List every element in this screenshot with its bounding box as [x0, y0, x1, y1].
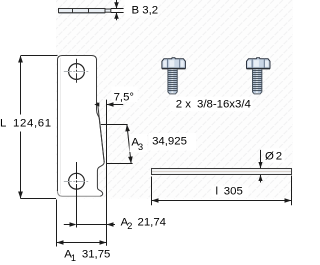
dimension 7,5 degrees (bend angle)	[94, 86, 137, 107]
dimension l 305 (wire length)	[152, 176, 292, 206]
label diameter 2	[264, 148, 285, 162]
dimension A1 (overall width)	[57, 200, 107, 247]
bolt 2 (hex head 3/8-16x3/4)	[247, 58, 271, 94]
svg-text:21,74: 21,74	[138, 217, 167, 229]
svg-text:B 3,2: B 3,2	[132, 5, 159, 17]
label 2 x 3/8-16x3/4	[170, 97, 253, 112]
dimension diameter 2 (wire)	[258, 150, 262, 183]
hole 1 centerlines	[64, 59, 89, 84]
label A2 21,74	[121, 217, 166, 232]
svg-text:1: 1	[71, 253, 76, 263]
dimension A2 (hole to edge)	[64, 222, 115, 227]
dimension B (thickness)	[111, 0, 124, 20]
locking plate side view (thickness B)	[59, 9, 111, 14]
svg-text:7,5°: 7,5°	[114, 91, 134, 103]
svg-text:31,75: 31,75	[82, 249, 111, 261]
svg-text:l: l	[216, 186, 219, 198]
bolt 1 (hex head 3/8-16x3/4)	[162, 58, 186, 94]
hole 2 centerlines	[64, 162, 88, 228]
svg-text:2: 2	[127, 221, 132, 231]
locking wire / strip (l = 305)	[152, 169, 292, 175]
label l 305	[212, 186, 249, 198]
svg-text:2: 2	[276, 151, 282, 163]
hole 2	[69, 173, 85, 189]
svg-text:3/8-16x3/4: 3/8-16x3/4	[197, 99, 251, 111]
svg-text:305: 305	[224, 186, 243, 198]
hole 1	[69, 64, 85, 80]
svg-text:124,61: 124,61	[13, 118, 52, 130]
svg-text:L: L	[0, 118, 6, 130]
label L 124,61	[0, 118, 52, 130]
svg-text:34,925: 34,925	[152, 136, 187, 148]
label A3	[130, 134, 148, 152]
label A1 31,75	[64, 249, 110, 264]
tab edge reference / extension line	[106, 100, 108, 246]
svg-text:Ø: Ø	[265, 151, 274, 163]
label 34,925	[149, 133, 196, 151]
label B 3,2	[125, 0, 159, 17]
bracket bent tab edge (7,5 deg bend)	[98, 103, 105, 163]
dimension A3 (tab height)	[101, 125, 133, 164]
svg-text:2 x: 2 x	[176, 99, 191, 111]
hatched drawing background	[56, 0, 293, 199]
bracket front view (body)	[58, 56, 105, 197]
svg-text:3: 3	[138, 142, 143, 152]
dimension L (overall length)	[18, 56, 57, 199]
